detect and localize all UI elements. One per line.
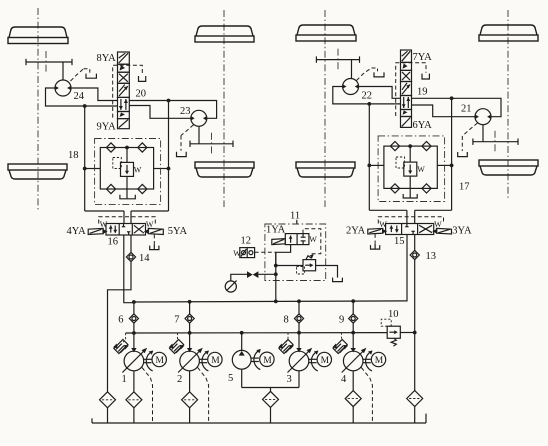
axle stub symbol 4 (473, 131, 518, 153)
steering motor 23 (191, 110, 208, 126)
pilot dash to actuator pump 4 (340, 333, 342, 342)
pilot line down to manifold (275, 252, 277, 301)
svg-text:9: 9 (339, 315, 344, 326)
drain bracket of unit 11 (333, 278, 343, 282)
variable pump 4 (342, 348, 367, 373)
svg-text:19: 19 (417, 87, 428, 98)
solenoid valve 12 (240, 248, 255, 258)
suction pump 2 (189, 371, 191, 392)
junction lower manifold pump5 (240, 331, 244, 335)
filter shared pumps 3 and 5 (263, 391, 279, 407)
svg-text:M: M (263, 356, 272, 366)
solenoid valve 20 (118, 52, 130, 129)
case drain pump 1 (142, 368, 153, 423)
filter under pump 1 (126, 392, 142, 408)
motor M pump 2 (208, 352, 222, 366)
shaft pump 2 (199, 359, 207, 362)
tire axle2 rear (195, 162, 254, 177)
rotation arrow pump 2 (202, 351, 209, 371)
solenoid valve 16 (106, 224, 146, 236)
fixed pump 5 (232, 350, 251, 369)
svg-text:3: 3 (287, 374, 292, 385)
shutoff valve (247, 271, 258, 278)
column above check valve 6 (133, 302, 135, 314)
tank symbol block 18 (120, 195, 135, 199)
rotation arrow pump 1 (146, 351, 153, 371)
relief 11a outlet to drain (316, 266, 338, 278)
control actuator pump 3 (278, 340, 294, 354)
rectifier bridge of block 18 (100, 148, 153, 190)
svg-text:21: 21 (461, 104, 472, 115)
tank symbol block 17 (403, 194, 417, 198)
junction block18 right (167, 167, 171, 171)
check valve bridge18 bottom-left (106, 184, 115, 193)
column below check valve 7 (189, 323, 191, 333)
junction block18 right top (167, 99, 171, 103)
filter under pump 2 (182, 392, 198, 408)
relief valve in block 17 (404, 162, 417, 176)
dash-dot boundary of block 18 (95, 139, 161, 205)
inlet arrow pump 1 (131, 348, 136, 352)
suction pump 1 (133, 371, 135, 392)
inlet arrow pump 5 (239, 351, 245, 356)
check valve 8 (294, 314, 303, 323)
svg-text:23: 23 (180, 106, 191, 117)
case drain pump 2 (198, 368, 209, 423)
control actuator pump 2 (169, 340, 185, 354)
dash-dot enclosure 11 (265, 224, 326, 281)
svg-text:W: W (434, 220, 442, 229)
tire axle1 rear (8, 164, 67, 179)
gauge line (231, 274, 247, 281)
junction lower manifold pump3 (297, 331, 301, 335)
junction upper manifold at pump2 (188, 300, 192, 304)
column above check valve 9 (352, 302, 354, 314)
check valve bridge17 top-left (390, 142, 399, 151)
tire axle4 rear (479, 160, 538, 175)
solenoid valve 15 (386, 224, 434, 235)
link from motor21 to axle 4 (482, 125, 484, 142)
suction pump2 to tank line (189, 408, 191, 423)
pilot dashed box of relief 11a (297, 267, 305, 275)
link from motor23 to axle 2 (198, 126, 200, 144)
pipe motor22 left to valve19 (333, 87, 401, 104)
pilot dash to actuator pump 3 (286, 333, 288, 342)
svg-text:10: 10 (388, 309, 399, 320)
column below check valve 9 (352, 323, 354, 333)
pipe valve19 to motor21 outer (412, 98, 502, 116)
feedback linkage of motor 23 (177, 125, 194, 157)
svg-text:6: 6 (118, 315, 123, 326)
pilot dashed box of relief 10 (381, 319, 391, 326)
right return to tank line (414, 407, 416, 424)
tank line (92, 414, 426, 423)
shaft pump 3 (309, 359, 317, 362)
svg-text:20: 20 (136, 89, 147, 100)
axle stub symbol 3 (316, 49, 359, 71)
junction relief10 outlet (413, 331, 417, 335)
svg-text:7: 7 (174, 315, 179, 326)
pipe valve19 to motor21 inner (412, 105, 475, 117)
check valve bridge18 bottom-right (138, 184, 147, 193)
line shutoff to pilot junction (258, 273, 275, 275)
link from axle 3 to motor 22 (351, 60, 353, 79)
shared filter to tank line (270, 407, 272, 423)
svg-text:16: 16 (108, 237, 119, 248)
right solenoid of valve 16 (144, 228, 163, 234)
shaft pump 4 (363, 359, 371, 362)
svg-text:W: W (134, 166, 142, 175)
feedback linkage of motor 21 (458, 123, 478, 157)
suction pump 4 (352, 371, 354, 391)
pipe valve20 to motor23 outer (129, 101, 216, 119)
shaft pump 1 (144, 359, 152, 362)
valve block 17 enclosure (369, 98, 451, 223)
axle stub symbol 2 (190, 133, 233, 155)
line junction to relief 11a (276, 265, 303, 267)
inlet line pump 4 (352, 333, 354, 350)
svg-text:11: 11 (290, 211, 300, 222)
axle centerline 2 (left inner) (223, 10, 225, 207)
relief valve 10 (387, 326, 400, 338)
variable pump 2 (178, 348, 203, 373)
svg-text:M: M (156, 356, 165, 366)
check valve bridge17 bottom-left (390, 184, 399, 193)
pipe motor24 left to valve20 (46, 88, 118, 106)
inlet arrow pump 2 (187, 348, 192, 352)
relief10 outlet line (400, 332, 414, 334)
feedback linkage of motor 24 (71, 69, 97, 81)
check valve bridge17 bottom-right (422, 184, 431, 193)
junction block17 right (450, 164, 454, 168)
svg-text:24: 24 (74, 91, 85, 102)
svg-text:18: 18 (68, 150, 79, 161)
check valve 14 (126, 252, 135, 261)
pilot/upper manifold (134, 301, 407, 302)
column below check valve 6 (133, 323, 135, 333)
svg-text:1YA: 1YA (266, 225, 286, 236)
svg-text:6YA: 6YA (413, 120, 433, 131)
check valve bridge18 top-left (106, 143, 115, 152)
svg-text:W: W (146, 220, 154, 229)
line valve16 to check valve 14 (130, 235, 132, 252)
junction block17 left (367, 164, 371, 168)
svg-text:13: 13 (426, 251, 437, 262)
svg-text:4YA: 4YA (67, 226, 87, 237)
junction lower manifold pump4 (351, 331, 355, 335)
motor M pump 5 (260, 352, 274, 366)
motor M pump 3 (317, 352, 331, 366)
check valve 13 (410, 250, 419, 259)
steering motor 21 (475, 109, 492, 125)
motor M pump 1 (152, 352, 166, 366)
column above check valve 7 (189, 302, 191, 314)
inlet arrow pump 4 (351, 348, 356, 352)
suction jog pumps 5 and 3 (242, 369, 299, 387)
dash-dot boundary of block 17 (378, 136, 445, 202)
rotation arrow pump 5 (254, 349, 261, 369)
svg-text:4: 4 (341, 374, 347, 385)
svg-text:9YA: 9YA (97, 122, 117, 133)
drain bracket of valve 19 (422, 74, 429, 79)
svg-text:2YA: 2YA (346, 226, 366, 237)
inlet arrow pump 3 (296, 348, 301, 352)
rotation arrow pump 4 (366, 351, 373, 371)
svg-text:22: 22 (362, 91, 373, 102)
suction pump4 to tank line (352, 407, 354, 423)
svg-text:7YA: 7YA (413, 52, 433, 63)
junction lower manifold pump1 (132, 331, 136, 335)
tire axle3 rear (296, 162, 355, 177)
junction block18 left (83, 167, 87, 171)
svg-text:17: 17 (459, 182, 470, 193)
svg-text:5: 5 (228, 373, 233, 384)
pipe valve20 to motor23 inner (129, 106, 191, 119)
return line valve15 down (414, 260, 416, 391)
svg-text:M: M (211, 356, 220, 366)
case drain pump 4 (361, 368, 372, 423)
tire axle1 front (8, 27, 68, 44)
filter under pump 4 (345, 391, 361, 407)
check valve bridge18 top-right (138, 143, 147, 152)
variable pump 3 (288, 348, 313, 373)
pilot dash to actuator pump 1 (122, 333, 126, 344)
variable pump 1 (122, 348, 147, 373)
feedback linkage of motor 22 (357, 68, 385, 81)
svg-text:2: 2 (177, 374, 182, 385)
relief valve 11a (303, 254, 316, 270)
junction lower manifold pump2 (188, 331, 192, 335)
drain of valve 15 (371, 234, 380, 249)
inlet line pump 5 (241, 333, 243, 351)
steering motor 22 (342, 79, 359, 95)
return line valve16 to tank filter (108, 262, 132, 392)
svg-text:8YA: 8YA (97, 53, 117, 64)
pressure gauge (225, 281, 236, 293)
pilot dashed box of valve 1YA (303, 229, 321, 254)
svg-text:W: W (379, 220, 387, 229)
right solenoid of valve 15 (432, 228, 451, 234)
line valve15 to check valve 13 (414, 235, 416, 251)
svg-text:5YA: 5YA (168, 226, 188, 237)
control actuator pump 4 (332, 340, 348, 354)
inlet line pump 2 (189, 333, 191, 350)
check valve 9 (349, 314, 358, 323)
check valve 7 (185, 314, 194, 323)
svg-text:W: W (100, 220, 108, 229)
pressure line valve15 to manifold (406, 235, 408, 301)
left return to tank line (107, 408, 109, 423)
pilot junction upper (274, 264, 278, 268)
column above check valve 8 (298, 302, 300, 314)
svg-text:W: W (417, 165, 425, 174)
inlet line pump 1 (133, 333, 135, 350)
svg-text:1: 1 (122, 374, 127, 385)
svg-text:W: W (233, 249, 241, 258)
pilot dashed box in block 18 (113, 158, 122, 169)
axle centerline 1 (left outer) (37, 8, 39, 212)
check valve bridge17 top-right (422, 142, 431, 151)
suction pump1 to tank line (133, 408, 135, 423)
center column of block 17 (408, 144, 412, 198)
pilot junction lower (274, 272, 278, 276)
steering motor 24 (55, 80, 72, 96)
svg-text:14: 14 (139, 253, 150, 264)
shaft pump 5 (251, 358, 259, 361)
pilot dashed enclosure of valve 19 (396, 63, 426, 116)
tire axle3 front (296, 25, 356, 41)
pipe motor22 right to valve19 (359, 87, 401, 99)
spring of relief 10 (391, 338, 396, 346)
junction on motor24 pipe (83, 104, 87, 108)
pilot dash to actuator pump 2 (176, 333, 177, 342)
rotation arrow pump 3 (311, 351, 318, 371)
link from axle 1 to motor 24 (62, 62, 64, 80)
svg-text:3YA: 3YA (452, 226, 472, 237)
axle centerline 4 (right outer) (507, 10, 509, 200)
pilot dashed box of valve 15 (378, 217, 443, 224)
pilot dashed box in block 17 (396, 157, 405, 168)
drop to filter shared (270, 388, 272, 392)
svg-text:M: M (321, 356, 330, 366)
solenoid valve 19 (401, 50, 412, 127)
tire axle4 front (479, 25, 538, 41)
pipe motor24 right to valve20 (71, 88, 118, 101)
filter on right return (407, 391, 423, 407)
drain of valve 16 (150, 234, 159, 249)
valve block 18 enclosure (85, 101, 169, 224)
drain bracket of valve 20 (139, 76, 146, 81)
left solenoid of valve 16 (88, 228, 107, 234)
rectifier bridge of block 17 (384, 146, 437, 188)
svg-text:M: M (375, 356, 384, 366)
axle stub symbol 1 (26, 51, 72, 73)
axle centerline 3 (right inner) (324, 10, 326, 207)
leader line of label 11 (296, 220, 298, 224)
svg-text:15: 15 (394, 236, 405, 247)
junction upper manifold at pump4 (351, 299, 355, 303)
pressure line valve16 to manifold (124, 235, 134, 303)
check valve 6 (129, 314, 138, 323)
junction upper manifold at pump3 (297, 299, 301, 303)
center column of block 18 (125, 146, 129, 199)
pilot line 1YA valve to junction (276, 245, 291, 266)
pilot dashed line valve12 to unit 11 (255, 251, 276, 253)
control actuator pump 1 (113, 340, 129, 354)
pilot dashed box of valve 16 (99, 217, 156, 224)
delivery/lower manifold (126, 332, 388, 334)
solenoid valve 1YA (272, 234, 309, 245)
relief valve in block 18 (121, 162, 134, 176)
junction block17 right top (450, 96, 454, 100)
svg-text:12: 12 (241, 236, 252, 247)
left solenoid of valve 15 (368, 228, 387, 234)
filter on left return (100, 392, 116, 408)
junction manifold left (132, 300, 136, 304)
junction upper manifold at unit11 (274, 300, 278, 304)
svg-text:W: W (309, 235, 317, 244)
column below check valve 8 (298, 323, 300, 333)
pilot dashed enclosure of valve 20 (113, 65, 143, 117)
motor M pump 4 (371, 352, 385, 366)
junction block17 left top (367, 102, 371, 106)
svg-text:8: 8 (284, 315, 289, 326)
tire axle2 front (195, 26, 254, 42)
inlet line pump 3 (298, 333, 300, 350)
